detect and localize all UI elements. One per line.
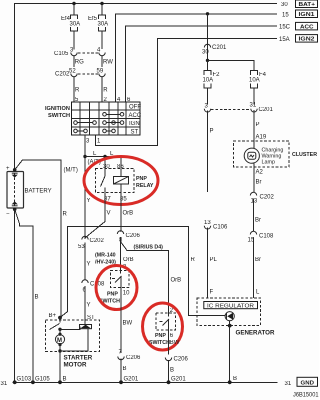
svg-text:A2: A2 bbox=[256, 170, 264, 176]
red circle pnp switch 2 bbox=[143, 303, 183, 350]
svg-text:B: B bbox=[35, 294, 39, 300]
IGN row contacts bbox=[74, 121, 124, 125]
node G103 bbox=[13, 380, 17, 384]
wire C201-30 drop bbox=[207, 14, 209, 61]
svg-text:31: 31 bbox=[250, 103, 257, 109]
label 13 C106 bbox=[204, 220, 228, 298]
wire BW 1 bbox=[120, 288, 122, 353]
node generator B ground bbox=[228, 380, 232, 384]
svg-text:−: − bbox=[6, 212, 10, 218]
svg-text:G201: G201 bbox=[124, 377, 139, 383]
svg-text:R: R bbox=[75, 88, 80, 94]
net box IGN2 bbox=[296, 35, 318, 43]
svg-text:P: P bbox=[210, 129, 214, 135]
node starter B ground bbox=[58, 380, 62, 384]
wire bus 15A IGN2 from ignition pin 1 bbox=[95, 38, 277, 145]
net box GND bbox=[297, 377, 318, 386]
wire relay 87 V bbox=[86, 193, 106, 238]
svg-text:13: 13 bbox=[251, 199, 258, 205]
fuse Ef5 30A bbox=[88, 4, 108, 50]
svg-text:+: + bbox=[6, 166, 10, 172]
svg-text:G105: G105 bbox=[35, 377, 50, 383]
relay switch bbox=[101, 157, 106, 193]
svg-text:STARTER: STARTER bbox=[64, 355, 93, 362]
node B+ junction bbox=[58, 316, 62, 320]
cluster dashed box bbox=[233, 141, 289, 167]
generator cable to B+ bbox=[60, 226, 225, 317]
svg-text:PL: PL bbox=[210, 257, 218, 263]
svg-text:C202: C202 bbox=[90, 238, 105, 244]
svg-text:10A: 10A bbox=[203, 78, 214, 84]
svg-text:OrB: OrB bbox=[123, 211, 134, 217]
pnp switch 1 dashed box bbox=[111, 265, 131, 297]
svg-text:Y: Y bbox=[87, 262, 91, 268]
svg-text:Lamp: Lamp bbox=[262, 160, 276, 166]
svg-text:31: 31 bbox=[1, 381, 8, 387]
svg-text:ACC: ACC bbox=[129, 113, 142, 119]
charging warning lamp bbox=[244, 141, 259, 170]
svg-text:R: R bbox=[191, 257, 196, 263]
wire relay 85 OrB bbox=[120, 193, 122, 232]
svg-text:CLUSTER: CLUSTER bbox=[292, 152, 317, 158]
node G105 bbox=[31, 380, 35, 384]
svg-text:F2: F2 bbox=[213, 72, 221, 78]
svg-text:Br: Br bbox=[256, 180, 262, 186]
svg-text:30A: 30A bbox=[98, 22, 109, 28]
svg-text:Br: Br bbox=[255, 218, 261, 224]
wire starter ground bbox=[59, 351, 61, 382]
svg-text:GND: GND bbox=[301, 381, 315, 387]
node generator ground bbox=[228, 324, 232, 328]
starter solenoid coil bbox=[60, 324, 92, 351]
IC regulator box bbox=[204, 302, 258, 310]
starter motor dashed box bbox=[46, 320, 100, 351]
connector C206 pin 1 bbox=[165, 357, 188, 383]
svg-text:OrB: OrB bbox=[171, 278, 182, 284]
svg-text:OrB: OrB bbox=[123, 257, 134, 263]
node relay 30 tap bbox=[103, 155, 106, 158]
node G201 right bbox=[167, 380, 171, 384]
svg-text:B+: B+ bbox=[49, 313, 57, 319]
node F2 F4 split bbox=[206, 59, 209, 62]
node Ef5 top junction bbox=[100, 2, 103, 5]
svg-text:59: 59 bbox=[97, 68, 104, 74]
connector C202 pin 53 bbox=[78, 236, 105, 280]
svg-text:15A: 15A bbox=[279, 37, 290, 43]
svg-text:F: F bbox=[210, 290, 214, 296]
svg-text:C206: C206 bbox=[174, 357, 189, 363]
ground bus 31 bbox=[13, 381, 278, 383]
connector C108 pin 6 bbox=[82, 280, 105, 324]
svg-text:IGN2: IGN2 bbox=[299, 37, 315, 43]
svg-text:C202: C202 bbox=[260, 195, 275, 201]
svg-text:P: P bbox=[256, 122, 260, 128]
svg-text:R: R bbox=[103, 88, 108, 94]
battery bbox=[6, 166, 24, 218]
wire bus 15C ACC bbox=[126, 26, 278, 102]
svg-text:C201: C201 bbox=[212, 45, 227, 51]
fuse F4 10A bbox=[249, 71, 267, 105]
wire bus 15 IGN1 bbox=[116, 14, 278, 102]
svg-text:RW: RW bbox=[103, 60, 113, 66]
connector C206 pin 7 bbox=[118, 350, 141, 383]
generator dashed box bbox=[197, 298, 260, 326]
svg-text:C201: C201 bbox=[259, 107, 274, 113]
svg-text:10A: 10A bbox=[249, 78, 260, 84]
connector C206 pin 8 bbox=[117, 231, 140, 271]
connector C202 pin 13 bbox=[250, 192, 274, 231]
svg-text:31: 31 bbox=[285, 381, 292, 387]
svg-text:OFF: OFF bbox=[129, 105, 141, 111]
svg-text:B: B bbox=[170, 368, 174, 374]
wire generator ground bbox=[229, 326, 231, 383]
starter motor M bbox=[55, 329, 64, 351]
svg-text:BW: BW bbox=[170, 340, 180, 346]
red circle pnp switch 1 bbox=[96, 266, 137, 310]
svg-text:M: M bbox=[57, 338, 62, 344]
svg-text:A19: A19 bbox=[256, 135, 267, 141]
connector C201 pin 31 bbox=[250, 103, 274, 142]
pnp relay dashed box bbox=[96, 169, 135, 193]
pnp switch 2 dashed box bbox=[156, 308, 176, 339]
red circle pnp relay bbox=[84, 157, 158, 205]
svg-text:(MR-140: (MR-140 bbox=[95, 253, 116, 259]
svg-text:C206: C206 bbox=[126, 233, 141, 239]
wire battery+ to R feed bbox=[15, 160, 61, 318]
fuse F2 10A bbox=[203, 60, 221, 104]
wire bus 30 BAT+ bbox=[15, 4, 277, 170]
ACC row contacts bbox=[103, 113, 124, 117]
svg-text:(SIRIUS D4): (SIRIUS D4) bbox=[134, 245, 164, 251]
ignition switch contact table bbox=[72, 102, 142, 135]
wire battery- to G105 bbox=[15, 209, 33, 382]
ST row contacts bbox=[74, 129, 116, 133]
svg-text:30A: 30A bbox=[70, 22, 81, 28]
svg-text:(M/T): (M/T) bbox=[64, 168, 78, 174]
svg-text:52: 52 bbox=[69, 68, 76, 74]
svg-text:IGN: IGN bbox=[129, 121, 140, 127]
svg-text:Ef5: Ef5 bbox=[88, 16, 98, 22]
net box ACC bbox=[296, 22, 318, 30]
wire battery- to G103 bbox=[14, 209, 16, 382]
svg-text:SWITCH: SWITCH bbox=[48, 113, 70, 119]
svg-text:V: V bbox=[107, 211, 111, 217]
svg-text:Br: Br bbox=[255, 257, 261, 263]
svg-text:MOTOR: MOTOR bbox=[64, 362, 87, 369]
svg-text:C105: C105 bbox=[54, 51, 69, 57]
svg-text:BAT+: BAT+ bbox=[299, 2, 316, 8]
wire L branch to relay bbox=[85, 157, 121, 169]
svg-text:30: 30 bbox=[103, 164, 110, 170]
wire BW 2 bbox=[168, 330, 170, 354]
svg-text:15C: 15C bbox=[279, 25, 291, 31]
connector C105 pins 3 / 4 bbox=[54, 48, 105, 68]
svg-text:BW: BW bbox=[123, 321, 133, 327]
svg-text:RELAY: RELAY bbox=[136, 183, 154, 189]
svg-text:C206: C206 bbox=[126, 355, 141, 361]
node starter contact bbox=[58, 328, 61, 331]
svg-text:ACC: ACC bbox=[300, 24, 314, 30]
svg-text:PNP: PNP bbox=[136, 176, 147, 182]
node start junction bbox=[83, 155, 86, 158]
connector C202 pins 52 / 59 bbox=[55, 68, 105, 102]
relay coil bbox=[114, 169, 129, 193]
svg-text:B: B bbox=[63, 377, 67, 383]
wire cluster to C202 bbox=[253, 167, 255, 193]
generator diode bbox=[225, 312, 234, 326]
svg-text:BATTERY: BATTERY bbox=[25, 189, 52, 195]
connector C201 pin 30 bbox=[202, 44, 227, 55]
svg-text:13: 13 bbox=[204, 220, 211, 226]
svg-text:C106: C106 bbox=[213, 225, 228, 231]
svg-text:10: 10 bbox=[123, 291, 130, 297]
svg-text:F4: F4 bbox=[259, 72, 267, 78]
svg-text:G103: G103 bbox=[17, 377, 32, 383]
svg-text:15: 15 bbox=[282, 12, 289, 18]
svg-text:PNP: PNP bbox=[155, 333, 166, 339]
svg-text:PNP: PNP bbox=[107, 292, 118, 298]
svg-text:J6B15001: J6B15001 bbox=[293, 393, 319, 399]
svg-text:C108: C108 bbox=[259, 234, 274, 240]
wire ignition pin3 start feed bbox=[84, 135, 86, 239]
svg-text:IGNITION: IGNITION bbox=[45, 106, 70, 112]
svg-text:ST: ST bbox=[131, 129, 139, 135]
svg-text:B: B bbox=[123, 366, 127, 372]
node starter ground junction bbox=[58, 349, 61, 352]
svg-text:RG: RG bbox=[75, 60, 84, 66]
svg-text:IC REGULATOR: IC REGULATOR bbox=[207, 303, 254, 309]
fuse Ef4 30A bbox=[61, 4, 80, 50]
svg-text:B: B bbox=[233, 376, 237, 382]
node Ef4 top junction bbox=[72, 2, 75, 5]
svg-text:IGN1: IGN1 bbox=[299, 12, 315, 18]
svg-text:30: 30 bbox=[281, 2, 288, 8]
node G201 left bbox=[119, 380, 123, 384]
svg-text:GENERATOR: GENERATOR bbox=[236, 330, 275, 337]
svg-text:R: R bbox=[63, 212, 68, 218]
svg-text:30: 30 bbox=[202, 50, 209, 56]
starter contact blade bbox=[59, 318, 61, 323]
dashed link C201 bbox=[211, 109, 250, 111]
svg-text:C202: C202 bbox=[55, 72, 70, 78]
svg-text:Y: Y bbox=[87, 198, 91, 204]
connector C108 pin 15 bbox=[248, 231, 275, 297]
wire SIRIUS branch bbox=[121, 242, 169, 314]
node C201-30 tap on IGN1 bbox=[206, 12, 209, 15]
svg-text:G201: G201 bbox=[171, 377, 186, 383]
net box BAT+ bbox=[296, 0, 318, 8]
svg-text:53: 53 bbox=[78, 244, 85, 250]
net box IGN1 bbox=[296, 10, 318, 18]
wire to F4 bbox=[208, 60, 255, 70]
svg-text:Y: Y bbox=[87, 303, 91, 309]
connector C201 pin 3 bbox=[204, 104, 210, 193]
